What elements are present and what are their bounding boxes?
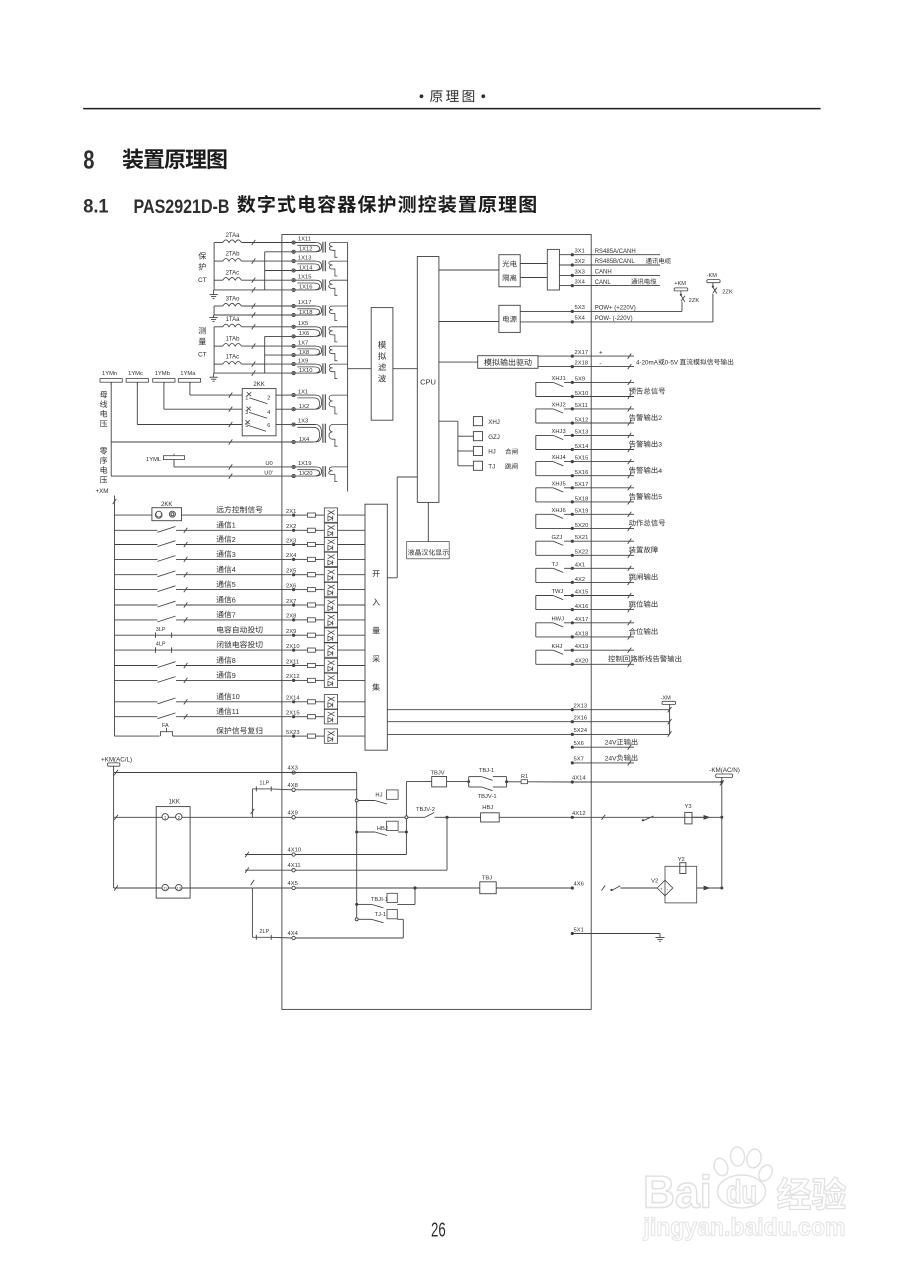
relay coil HJ <box>473 446 517 455</box>
svg-text:-: - <box>599 361 601 368</box>
input transformer 1X11/1X12 <box>292 237 348 258</box>
wire neutral to 1X20 (U0q) <box>111 470 292 478</box>
svg-text:2X3: 2X3 <box>286 538 296 544</box>
svg-text:2X7: 2X7 <box>286 599 296 605</box>
input row 2X15 label and pin <box>217 708 308 719</box>
voltage bus bar 1YMn <box>100 371 122 385</box>
2KK contact 3-4 <box>245 407 270 419</box>
label protection CT <box>198 252 207 284</box>
svg-text:2TAc: 2TAc <box>226 271 240 277</box>
opto isolation block <box>499 255 520 287</box>
svg-text:4: 4 <box>658 468 662 475</box>
label 动作总信号 <box>629 519 665 526</box>
CPU block <box>417 257 439 503</box>
svg-text:-KM(AC/N): -KM(AC/N) <box>709 767 740 774</box>
svg-text:4X16: 4X16 <box>575 604 589 610</box>
svg-text:2X8: 2X8 <box>286 614 296 620</box>
svg-text:4X10: 4X10 <box>288 848 302 854</box>
input resistor on 2X3 row <box>307 542 324 546</box>
wire 4X14 row <box>571 776 724 784</box>
svg-text:XHJ1: XHJ1 <box>552 376 566 382</box>
svg-text:1TAa: 1TAa <box>226 317 241 323</box>
wire 4X5 row <box>114 881 415 891</box>
wire bus to analog filter <box>348 368 372 370</box>
svg-text:TWJ: TWJ <box>552 589 564 595</box>
svg-text:3TAo: 3TAo <box>226 296 241 302</box>
input resistor on 2X1 row <box>307 513 324 517</box>
svg-text:2TAa: 2TAa <box>226 233 241 239</box>
input resistor on 2X12 row <box>307 678 324 682</box>
label 预告总信号 <box>629 387 665 394</box>
measuring CT return wire <box>214 336 292 375</box>
contact TBJV-2 <box>408 807 449 819</box>
svg-text:3LP: 3LP <box>156 627 166 633</box>
svg-text:+KM(AC/L): +KM(AC/L) <box>101 757 132 764</box>
2KK contact 1-2 <box>245 392 270 404</box>
voltage bus bar 1YMc <box>126 371 148 385</box>
label 跳闸输出 <box>629 573 658 580</box>
input row 2X6 label and pin <box>217 580 308 591</box>
svg-text:1X1: 1X1 <box>298 389 308 395</box>
heading 8 <box>83 145 226 175</box>
wire analog filter to CPU <box>393 368 417 370</box>
svg-text:4X20: 4X20 <box>575 659 589 665</box>
svg-text:5X19: 5X19 <box>575 508 589 514</box>
svg-text:1YMb: 1YMb <box>155 371 170 377</box>
optocoupler on 2X15 row <box>324 710 365 724</box>
svg-text:2ZK: 2ZK <box>689 298 700 304</box>
voltage bus bar 1YML <box>146 454 185 463</box>
svg-text:HJ: HJ <box>488 449 496 456</box>
power supply block <box>499 305 520 332</box>
input transformer 1X17/1X18 <box>292 300 348 320</box>
svg-text:TBJI-1: TBJI-1 <box>371 897 388 903</box>
relay coil GZJ <box>473 432 499 441</box>
optocoupler on 2X1 row <box>324 508 365 522</box>
svg-text:1TAb: 1TAb <box>226 337 241 343</box>
svg-text:2KK: 2KK <box>253 382 264 388</box>
svg-text:8: 8 <box>232 657 236 665</box>
svg-text:XHJ5: XHJ5 <box>552 481 566 487</box>
svg-text:TJ: TJ <box>552 562 559 568</box>
relay coil TJ <box>473 461 517 470</box>
wire 1YML to 1X19 (U0) <box>174 460 292 470</box>
svg-text:4X19: 4X19 <box>575 644 589 650</box>
svg-text:KHJ: KHJ <box>552 644 563 650</box>
optocoupler on 2X9 row <box>324 628 365 642</box>
CT 2TAa <box>214 233 292 245</box>
svg-text:CANL: CANL <box>595 280 612 286</box>
svg-text:GZJ: GZJ <box>488 434 500 441</box>
svg-text:9: 9 <box>232 672 236 680</box>
wire CPU to LCD <box>427 502 429 541</box>
3TAo return wire <box>214 306 292 318</box>
svg-text:+: + <box>660 886 663 891</box>
svg-text:4X11: 4X11 <box>288 863 301 869</box>
label zero-seq voltage <box>100 447 108 483</box>
svg-text:HJ: HJ <box>375 793 382 799</box>
switch contact on 2X15 row <box>115 713 292 719</box>
optocoupler on 2X12 row <box>324 673 365 687</box>
svg-text:1X19: 1X19 <box>298 461 312 467</box>
svg-text:5X17: 5X17 <box>575 482 589 488</box>
input row 2X11 label and pin <box>217 656 308 667</box>
link 2LP <box>251 880 292 940</box>
switch 2KK voltage selector <box>242 382 292 436</box>
relay output contact XHJ2 (5X11/5X12) <box>536 403 634 426</box>
switch contact on 2X8 row <box>115 616 292 622</box>
svg-text:2ZK: 2ZK <box>722 290 733 296</box>
svg-text:2X6: 2X6 <box>286 583 296 589</box>
label 合位输出 <box>629 628 658 635</box>
svg-text:3: 3 <box>658 442 662 449</box>
svg-text:5X11: 5X11 <box>575 403 588 409</box>
input resistor on 2X14 row <box>307 700 324 704</box>
input resistor on 5X23 row <box>307 734 324 738</box>
relay coil HBJ on 4X12 row <box>447 805 572 822</box>
wire CPU to relay coils <box>439 421 474 466</box>
svg-text:8: 8 <box>83 145 94 175</box>
wire 1YMb to 1X2 <box>164 382 242 412</box>
optocoupler on 2X8 row <box>324 613 365 627</box>
solenoid Y2 with bypass <box>665 857 723 903</box>
relay output contact XHJ3 (5X13/5X14) <box>536 429 634 452</box>
svg-text:5X7: 5X7 <box>574 757 584 763</box>
-KM(AC/N) rail <box>709 767 740 888</box>
optocoupler on 2X4 row <box>324 552 365 566</box>
switch contact on 2X11 row <box>115 662 292 668</box>
svg-text:TBJV-2: TBJV-2 <box>416 807 435 813</box>
label 告警输出3 <box>629 440 662 448</box>
optocoupler on 2X7 row <box>324 598 365 612</box>
contact HBJ with coil <box>355 821 408 835</box>
svg-text:POW- (-220V): POW- (-220V) <box>595 316 633 322</box>
wire CPU to opto isolation <box>439 269 499 271</box>
contact Y3 drive <box>642 816 654 821</box>
svg-text:TJ: TJ <box>488 464 495 471</box>
input resistor on 2X5 row <box>307 573 324 577</box>
wire 5X6 24V+ output <box>571 739 638 750</box>
comm wire 3X1 RS485A/CANH <box>559 249 660 257</box>
contact TBJI-1 with coil <box>355 888 415 908</box>
voltage bus bar 1YMb <box>153 371 175 385</box>
svg-text:CANH: CANH <box>595 270 612 276</box>
comm wire 3X3 CANH <box>559 269 660 277</box>
switch contact on 2X3 row <box>115 541 292 547</box>
switch 2KK remote control <box>115 502 292 521</box>
relay coil XHJ <box>473 417 500 426</box>
wire 1YMn neutral vertical <box>110 382 112 476</box>
svg-text:1: 1 <box>232 522 236 530</box>
svg-text:4LP: 4LP <box>156 642 166 648</box>
input resistor on 2X6 row <box>307 588 324 592</box>
pushbutton FA signal reset <box>115 723 292 736</box>
svg-text:PAS2921D-B: PAS2921D-B <box>134 197 230 218</box>
svg-text:5X15: 5X15 <box>575 456 589 462</box>
label bus voltage <box>100 391 107 427</box>
svg-text:XHJ4: XHJ4 <box>552 455 567 461</box>
svg-text:XHJ2: XHJ2 <box>552 403 566 409</box>
svg-text:4X8: 4X8 <box>288 783 298 789</box>
switch contact on 2X2 row <box>115 527 292 533</box>
label 告警输出4 <box>629 467 662 475</box>
svg-text:5X21: 5X21 <box>575 535 589 541</box>
svg-text:U0': U0' <box>264 470 273 476</box>
svg-text:10: 10 <box>232 693 240 701</box>
svg-text:Y3: Y3 <box>685 804 692 810</box>
svg-text:HBJ: HBJ <box>482 805 493 811</box>
svg-text:4X5: 4X5 <box>288 881 298 887</box>
svg-text:TJ-1: TJ-1 <box>375 912 387 918</box>
comm wire 3X4 CANL <box>559 278 660 287</box>
svg-text:HBJ: HBJ <box>377 826 388 832</box>
svg-text:FA: FA <box>162 723 169 729</box>
svg-text:2X2: 2X2 <box>286 524 296 530</box>
svg-text:TBJ: TBJ <box>482 875 492 881</box>
input row 2X5 label and pin <box>217 566 308 577</box>
svg-text:5X1: 5X1 <box>574 927 584 933</box>
svg-text:2X1: 2X1 <box>286 509 296 515</box>
svg-text:8.1: 8.1 <box>83 197 109 218</box>
svg-text:TBJV-1: TBJV-1 <box>478 794 497 800</box>
svg-text:2X13: 2X13 <box>574 704 588 710</box>
svg-text:2KK: 2KK <box>161 502 172 508</box>
input transformer 1X19/1X20 <box>292 461 348 482</box>
wire 4X3 row <box>114 766 357 920</box>
label 装置故障 <box>629 546 658 553</box>
input resistor on 2X8 row <box>307 618 324 622</box>
relay output contact GZJ (5X21/5X22) <box>536 535 634 558</box>
svg-text:26: 26 <box>431 1219 446 1241</box>
input resistor on 2X15 row <box>307 715 324 719</box>
measuring CT common wire <box>213 327 215 373</box>
svg-text:24V: 24V <box>605 755 617 762</box>
-KM supply with switch 2ZK <box>707 273 733 322</box>
svg-text:1YMc: 1YMc <box>128 371 143 377</box>
analog bus wire <box>347 243 349 492</box>
svg-text:4X14: 4X14 <box>572 776 586 782</box>
link 3LP <box>115 627 292 638</box>
ground for protection CT <box>209 290 217 299</box>
CT 2TAc <box>214 271 292 283</box>
riser to TBJV <box>405 782 408 855</box>
svg-text:5X6: 5X6 <box>574 741 584 747</box>
svg-text:TBJV: TBJV <box>431 770 445 776</box>
heading 8.1 <box>83 195 536 218</box>
switch contact on 2X5 row <box>115 571 292 577</box>
svg-text:1YMa: 1YMa <box>180 371 196 377</box>
LCD display block <box>407 542 450 559</box>
-XM rail <box>661 696 676 737</box>
svg-text:13: 13 <box>177 887 181 891</box>
relay coil TBJV <box>406 770 446 787</box>
relay output contact TWJ (4X15/4X16) <box>536 589 634 612</box>
wire input acquisition to CPU <box>387 477 417 578</box>
svg-text:6: 6 <box>232 596 236 604</box>
input row 2X14 label and pin <box>217 693 308 704</box>
svg-text:1LP: 1LP <box>259 781 269 787</box>
svg-text:1X7: 1X7 <box>298 340 308 346</box>
wire CPU to analog output driver <box>439 361 478 363</box>
switch contact on 2X7 row <box>115 601 292 607</box>
input row 2X1 label and pin <box>217 506 308 517</box>
page header <box>420 90 486 102</box>
svg-text:5: 5 <box>658 494 662 501</box>
svg-text:4X15: 4X15 <box>575 590 589 596</box>
input row 2X7 label and pin <box>217 596 308 607</box>
power wire 5X3 POW+ <box>520 305 682 313</box>
svg-text:2: 2 <box>267 395 270 401</box>
svg-text:-KM: -KM <box>707 273 718 279</box>
svg-text:-: - <box>667 886 669 892</box>
svg-text:2X17: 2X17 <box>575 350 589 356</box>
svg-text:1X11: 1X11 <box>298 237 311 243</box>
optocoupler on 5X23 row <box>324 729 365 743</box>
svg-text:3: 3 <box>232 551 236 559</box>
svg-text:4X3: 4X3 <box>288 766 298 772</box>
svg-text:3X2: 3X2 <box>575 259 585 265</box>
label 跳位输出 <box>629 601 658 608</box>
switch contact on 2X6 row <box>115 586 292 592</box>
parallel contacts TBJ-1 / TBJV-1 <box>469 768 508 800</box>
input row 2X3 label and pin <box>217 535 308 546</box>
label measuring CT <box>198 327 207 358</box>
switch contact on 2X12 row <box>115 677 292 683</box>
svg-text:3X4: 3X4 <box>575 280 586 286</box>
wire 5X7 24V- output <box>571 754 638 765</box>
wire 4X9 row <box>114 810 407 820</box>
wire 2X16 <box>387 716 669 724</box>
solenoid Y3 <box>685 804 724 824</box>
optocoupler on 2X10 row <box>324 643 365 657</box>
header rule <box>83 108 820 110</box>
svg-text:1X15: 1X15 <box>298 274 312 280</box>
svg-text:4X12: 4X12 <box>572 811 586 817</box>
wire 4X12 row right <box>571 811 722 820</box>
wire 2X13 <box>387 704 669 712</box>
svg-text:+KM: +KM <box>674 281 686 287</box>
comm connector block <box>520 249 559 290</box>
label analog signal output <box>636 359 733 367</box>
watermark paw logo <box>712 1146 775 1210</box>
optocoupler on 2X6 row <box>324 582 365 596</box>
svg-text:POW+ (+220V): POW+ (+220V) <box>595 305 636 311</box>
relay output contact TJ (4X1/4X2) <box>536 562 634 585</box>
input row 2X10 label and pin <box>217 641 308 652</box>
svg-text:4X4: 4X4 <box>288 931 299 937</box>
input transformer 1X9/1X10 <box>292 358 348 378</box>
rectifier V2 <box>651 879 673 896</box>
relay output contact HWJ (4X17/4X18) <box>536 616 634 639</box>
input transformer 1X13/1X14 <box>292 255 348 276</box>
input resistor on 2X11 row <box>307 663 324 667</box>
resistor R1 <box>507 774 573 784</box>
svg-text:5X22: 5X22 <box>575 550 589 556</box>
label 控制回路断线告警输出 <box>608 655 681 662</box>
switch contact on 2X14 row <box>115 698 292 704</box>
input transformer 1X1/1X2 <box>292 389 348 414</box>
contact TJ-1 with coil <box>355 910 403 939</box>
optocoupler on 2X11 row <box>324 658 365 672</box>
svg-text:1X9: 1X9 <box>298 358 308 364</box>
voltage bus bar 1YMa <box>178 371 200 385</box>
svg-text:CPU: CPU <box>420 377 436 386</box>
svg-text:11: 11 <box>163 887 167 891</box>
input resistor on 2X10 row <box>307 648 324 652</box>
ground for measuring CT <box>209 373 217 381</box>
svg-text:4X1: 4X1 <box>575 562 585 568</box>
svg-text:2X4: 2X4 <box>286 553 297 559</box>
comm wire 3X2 RS485B/CANL <box>559 258 670 267</box>
input transformer 1X3/1X4 <box>292 419 348 447</box>
watermark Baidu logo text <box>643 1167 712 1218</box>
svg-text:2TAb: 2TAb <box>226 252 241 258</box>
device outer box <box>282 235 591 1010</box>
protection CT common wire <box>213 243 215 290</box>
input transformer 1X15/1X16 <box>292 274 348 295</box>
svg-text:Y2: Y2 <box>678 857 685 863</box>
svg-text:5X24: 5X24 <box>574 728 588 734</box>
svg-text:0-5V: 0-5V <box>665 359 679 366</box>
switch contact on 2X4 row <box>115 556 292 562</box>
svg-text:2X16: 2X16 <box>574 716 588 722</box>
svg-text:CT: CT <box>198 351 207 358</box>
wire 4X6 row right <box>571 882 658 892</box>
input row 2X12 label and pin <box>217 671 308 682</box>
input acquisition block <box>365 504 387 750</box>
+KM supply with switch 2ZK <box>674 281 699 311</box>
svg-text:HWJ: HWJ <box>552 616 565 622</box>
input row 2X8 label and pin <box>217 611 308 622</box>
input resistor on 2X4 row <box>307 557 324 561</box>
svg-text:4: 4 <box>232 566 236 574</box>
optocoupler on 2X2 row <box>324 523 365 537</box>
svg-text:XHJ: XHJ <box>488 419 500 426</box>
svg-text:11: 11 <box>232 708 239 716</box>
protection CT return wire <box>214 252 292 293</box>
analog output driver block <box>478 356 538 369</box>
link 4LP <box>115 642 292 653</box>
+XM rail <box>96 488 117 736</box>
svg-text:2LP: 2LP <box>259 929 269 935</box>
svg-text:2: 2 <box>232 536 236 544</box>
input row 2X9 label and pin <box>217 626 307 637</box>
relay output contact KHJ (4X19/4X20) <box>536 644 634 667</box>
svg-text:4X6: 4X6 <box>574 882 584 888</box>
wire 4X8 row <box>288 783 357 792</box>
analog filter block <box>371 308 393 421</box>
junction TBJ row <box>413 886 416 889</box>
svg-text:4X18: 4X18 <box>575 631 589 637</box>
svg-text:RS485B/CANL: RS485B/CANL <box>595 259 636 265</box>
svg-text:2X5: 2X5 <box>286 569 296 575</box>
svg-text:GZJ: GZJ <box>552 535 563 541</box>
relay coil TBJ <box>415 875 572 893</box>
svg-text:XHJ6: XHJ6 <box>552 508 566 514</box>
svg-text:5X20: 5X20 <box>575 523 589 529</box>
svg-text:5X3: 5X3 <box>575 305 585 311</box>
svg-text:1KK: 1KK <box>169 800 180 806</box>
ground for 3TAo <box>209 315 217 322</box>
svg-text:7: 7 <box>232 611 236 619</box>
svg-text:2X18: 2X18 <box>575 360 589 366</box>
svg-text:5X9: 5X9 <box>575 376 585 382</box>
svg-text:CT: CT <box>198 277 207 284</box>
svg-text:1X5: 1X5 <box>298 321 308 327</box>
svg-text:TBJ-1: TBJ-1 <box>479 768 494 774</box>
svg-text:5X10: 5X10 <box>575 391 589 397</box>
wire 1YMa to 1X1 <box>190 382 242 398</box>
